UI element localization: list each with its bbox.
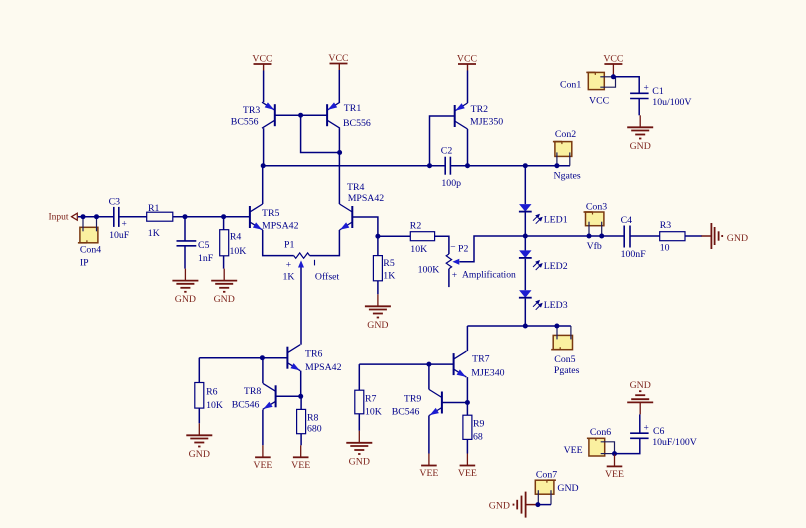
svg-text:VCC: VCC [457,54,477,65]
svg-text:GND: GND [630,380,651,391]
svg-text:VEE: VEE [419,468,438,479]
svg-text:Con2: Con2 [555,129,576,140]
svg-text:BC556: BC556 [231,116,259,127]
svg-text:10K: 10K [206,400,223,411]
svg-text:TR3: TR3 [243,105,261,116]
svg-text:Ngates: Ngates [554,171,581,182]
svg-text:10u/100V: 10u/100V [652,97,691,108]
svg-text:1K: 1K [383,271,395,282]
svg-text:LED2: LED2 [544,261,568,272]
svg-text:680: 680 [307,424,322,435]
svg-text:1K: 1K [283,272,295,283]
svg-text:10uF: 10uF [109,230,130,241]
svg-text:R4: R4 [230,232,242,243]
svg-text:100p: 100p [441,178,461,189]
svg-text:LED1: LED1 [544,215,568,226]
svg-text:MJE350: MJE350 [470,117,503,128]
svg-text:BC556: BC556 [343,118,371,129]
svg-text:VEE: VEE [291,460,310,471]
svg-text:IP: IP [80,257,89,268]
svg-text:C4: C4 [621,215,633,226]
svg-text:MPSA42: MPSA42 [262,221,299,232]
svg-text:GND: GND [630,141,651,152]
svg-text:P1: P1 [284,240,294,251]
svg-text:Input: Input [48,213,68,223]
svg-text:TR7: TR7 [472,353,490,364]
svg-text:C3: C3 [109,197,121,208]
svg-text:−: − [450,243,455,253]
svg-text:BC546: BC546 [232,399,260,410]
svg-text:GND: GND [349,456,370,467]
svg-text:10K: 10K [230,246,247,257]
svg-text:GND: GND [489,501,510,512]
svg-text:TR6: TR6 [305,349,323,360]
svg-text:R7: R7 [365,394,377,405]
svg-text:TR1: TR1 [344,103,362,114]
svg-text:Vfb: Vfb [587,241,602,252]
svg-text:Con4: Con4 [80,245,101,256]
svg-text:1K: 1K [148,228,160,239]
svg-text:R5: R5 [383,258,395,269]
svg-text:+: + [452,271,457,281]
svg-text:VEE: VEE [253,460,272,471]
svg-text:R8: R8 [307,413,319,424]
svg-text:Pgates: Pgates [554,365,580,376]
svg-text:100K: 100K [418,264,440,275]
svg-text:MJE340: MJE340 [471,367,504,378]
svg-text:R1: R1 [148,203,160,214]
svg-text:BC546: BC546 [392,406,420,417]
svg-text:VCC: VCC [589,95,609,106]
svg-text:+: + [644,84,649,94]
svg-text:VCC: VCC [252,54,272,65]
svg-text:10K: 10K [410,244,427,255]
svg-text:TR5: TR5 [262,208,280,219]
svg-text:R9: R9 [473,418,485,429]
svg-text:P2: P2 [458,244,468,255]
svg-text:VCC: VCC [603,54,623,65]
svg-text:R3: R3 [660,220,672,231]
svg-text:Offset: Offset [315,272,340,283]
svg-text:C5: C5 [198,240,210,251]
svg-text:VEE: VEE [564,445,583,456]
svg-text:MPSA42: MPSA42 [305,362,342,373]
svg-text:GND: GND [367,320,388,331]
svg-text:TR8: TR8 [244,386,262,397]
svg-text:R2: R2 [410,221,422,232]
svg-text:GND: GND [727,233,748,244]
svg-text:Con6: Con6 [590,427,611,438]
svg-text:+: + [644,423,649,433]
svg-text:Amplification: Amplification [462,269,516,280]
svg-text:MPSA42: MPSA42 [348,193,385,204]
svg-text:10: 10 [660,242,670,253]
svg-text:VCC: VCC [328,53,348,64]
svg-text:TR4: TR4 [347,182,365,193]
svg-text:GND: GND [214,294,235,305]
svg-text:TR9: TR9 [404,394,422,405]
svg-text:TR2: TR2 [471,104,489,115]
svg-text:+: + [286,260,291,270]
svg-text:VEE: VEE [605,469,624,480]
svg-text:10K: 10K [365,406,382,417]
svg-text:1nF: 1nF [198,253,214,264]
svg-text:68: 68 [473,431,483,442]
svg-text:10uF/100V: 10uF/100V [652,437,697,448]
svg-text:Con5: Con5 [554,354,575,365]
svg-text:Con1: Con1 [560,80,581,91]
svg-text:+: + [122,220,127,230]
svg-text:GND: GND [189,449,210,460]
svg-text:C1: C1 [652,86,664,97]
svg-text:GND: GND [557,483,578,494]
svg-text:100nF: 100nF [621,249,647,260]
svg-text:GND: GND [175,294,196,305]
svg-text:R6: R6 [206,387,218,398]
svg-text:C2: C2 [441,145,453,156]
svg-text:Con3: Con3 [586,201,607,212]
svg-text:VEE: VEE [458,468,477,479]
svg-text:C6: C6 [653,426,665,437]
svg-text:LED3: LED3 [544,300,568,311]
svg-text:Con7: Con7 [536,470,557,481]
